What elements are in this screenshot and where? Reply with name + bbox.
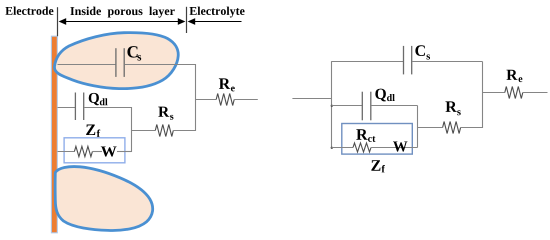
wire Rs right: [173, 130, 195, 132]
wire vertical right node: [482, 62, 484, 129]
capacitor Cs plates right circuit: [403, 46, 405, 75]
box Zf left: [64, 138, 125, 163]
capacitor Qdl plates: [74, 93, 76, 121]
node dot Qdl branch: [331, 105, 333, 107]
wire Rct left: [332, 147, 354, 149]
wire Qdl right right-circuit: [371, 105, 417, 107]
label Qdl right: [375, 89, 386, 102]
label Rs left: [158, 107, 169, 117]
porous layer blob top: [54, 33, 178, 89]
label Cs: [127, 46, 137, 57]
electrode bar: [51, 36, 57, 233]
double arrow inside porous layer: [63, 21, 181, 23]
wire vertical node left: [131, 107, 133, 152]
resistor Re left: [216, 94, 234, 106]
label Rs right: [445, 101, 456, 111]
label Inside porous layer: [70, 7, 174, 18]
wire Cs top right: [412, 61, 482, 63]
wire vertical left node: [331, 61, 333, 148]
wire Re left right-circuit: [483, 92, 505, 94]
wire Cs top left: [332, 61, 404, 63]
resistor Rct: [353, 143, 371, 152]
tick mark left: [57, 7, 59, 36]
label Re right: [506, 70, 517, 80]
label W left: [101, 146, 117, 156]
wire Re right stub right-circuit: [523, 92, 548, 94]
label Electrolyte: [190, 7, 245, 18]
label Cs right: [415, 45, 425, 56]
resistor Rs right circuit: [443, 122, 461, 134]
label Zf left: [86, 125, 95, 135]
wire W mid: [92, 151, 102, 153]
wire Qdl left right-circuit: [332, 105, 363, 107]
wire W left: [58, 151, 75, 153]
wire Cs left: [58, 64, 116, 66]
wire Rct right: [371, 147, 418, 149]
wire Re right stub: [234, 99, 258, 101]
arrow electrolyte: [192, 21, 242, 23]
wire Rs right right-circuit: [461, 127, 483, 129]
box Zf right: [342, 124, 413, 155]
wire vertical mid node: [417, 106, 419, 148]
porous layer blob bottom: [55, 167, 153, 231]
label Qdl: [89, 93, 99, 105]
capacitor Qdl plates right circuit: [361, 92, 363, 121]
wire Rs left: [132, 130, 156, 132]
resistor Rs left: [155, 125, 173, 137]
wire Cs right: [125, 64, 196, 66]
resistor W: [74, 146, 92, 156]
wire Rs left right-circuit: [418, 127, 443, 129]
capacitor Cs plates: [115, 48, 117, 77]
wire Re left: [196, 99, 217, 101]
wire vertical node right: [195, 64, 197, 131]
resistor Re right circuit: [505, 87, 523, 99]
wire W right: [117, 151, 132, 153]
tick mark right: [186, 7, 188, 33]
wire Qdl left: [58, 107, 76, 109]
label W right: [393, 141, 407, 151]
wire input stub: [292, 98, 331, 100]
label Re left: [219, 78, 230, 88]
label Zf right: [371, 160, 380, 170]
label Rct: [356, 129, 367, 139]
node dot Rct branch: [331, 147, 333, 149]
wire Qdl right: [84, 107, 131, 109]
label Electrode: [5, 6, 53, 14]
